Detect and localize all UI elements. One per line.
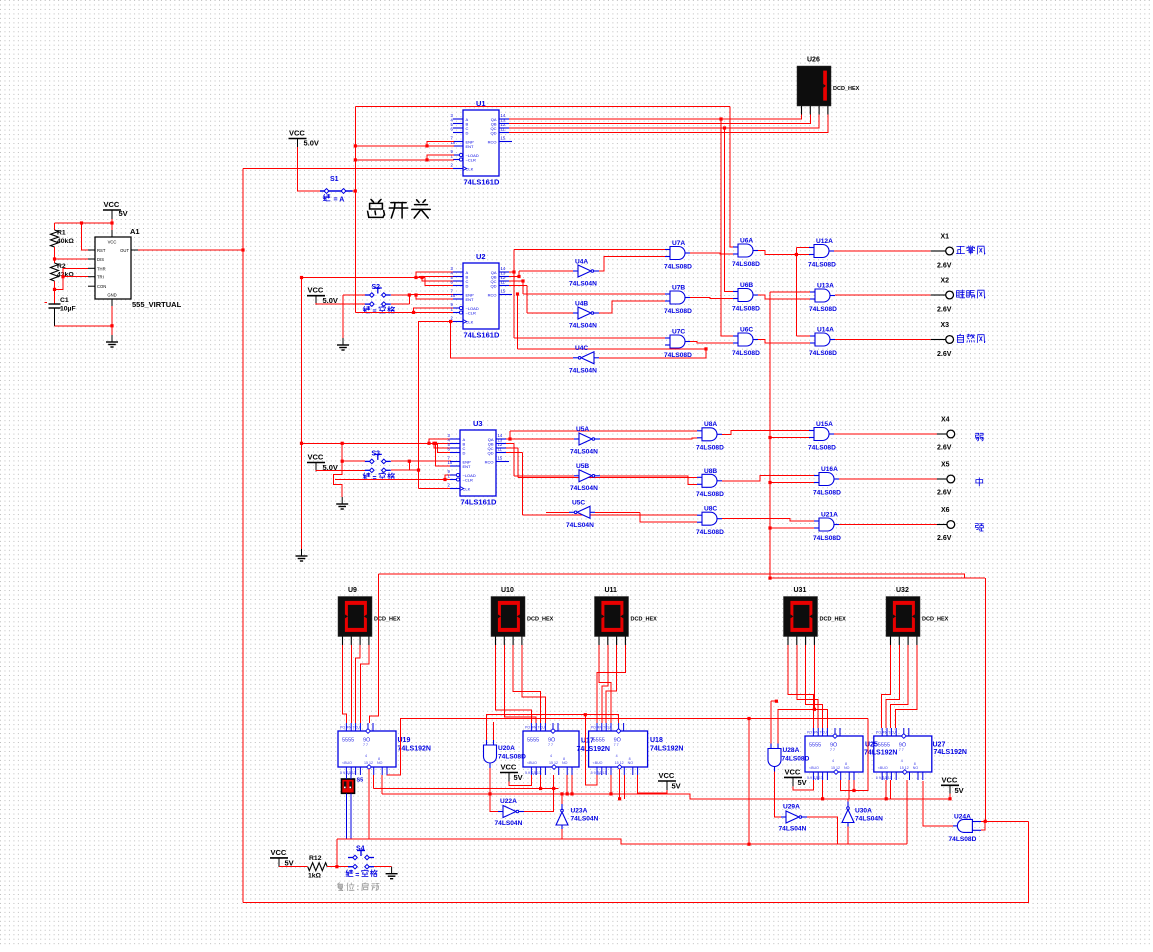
label U7A part	[664, 263, 692, 270]
junction	[408, 460, 411, 463]
junction	[53, 288, 56, 291]
junction	[110, 324, 113, 327]
wire U4A out to U7A in2	[599, 257, 665, 272]
svg-text:5V: 5V	[285, 859, 294, 868]
label X2 voltage	[937, 307, 952, 314]
svg-text:74LS192N: 74LS192N	[577, 746, 610, 753]
inverter U29A 74LS04N	[781, 811, 807, 823]
wire feedback bus lower	[770, 577, 985, 579]
svg-text:74LS04N: 74LS04N	[569, 323, 597, 330]
label U30A	[855, 808, 872, 815]
svg-text:U4B: U4B	[575, 301, 588, 308]
svg-text:NO: NO	[628, 761, 634, 765]
svg-text:RST: RST	[97, 248, 106, 253]
wire U3 QA stub	[506, 438, 510, 440]
wire R12 to S4	[327, 866, 348, 868]
junction	[412, 311, 415, 314]
svg-text:10µF: 10µF	[60, 306, 76, 313]
wire master switch vertical x=355	[354, 107, 356, 313]
svg-text:X2: X2	[941, 278, 950, 285]
wire U1 QD to U26	[509, 115, 828, 133]
svg-text:40kΩ: 40kΩ	[57, 238, 74, 245]
wire U17 pin to bus	[571, 775, 573, 794]
wire QB to U5B	[514, 475, 574, 477]
label U16A part	[813, 489, 841, 496]
junction	[53, 257, 56, 260]
svg-text:U2: U2	[476, 252, 486, 261]
wire U2 QB stub	[509, 276, 519, 278]
wire U10 pin2 to U17	[504, 645, 536, 723]
IC U3 74LS161D counter	[448, 419, 510, 507]
inverter U5A 74LS04N	[574, 433, 600, 445]
wire to C1 top	[54, 289, 56, 304]
wire R1 bottom to R2 top	[54, 247, 56, 263]
label 555_VIRTUAL	[132, 300, 182, 309]
svg-text:43kΩ: 43kΩ	[57, 272, 74, 279]
label U6B	[740, 282, 753, 289]
svg-text:U28A: U28A	[783, 747, 800, 754]
wire S1 to master net	[353, 190, 356, 192]
junction	[768, 481, 771, 484]
svg-text:5 9 ДД 13: 5 9 ДД 13	[525, 771, 541, 775]
label U13A	[817, 283, 834, 290]
svg-text:15 12: 15 12	[549, 761, 558, 765]
wire feedback vertical x=770	[769, 292, 771, 578]
svg-text:15 12: 15 12	[364, 761, 373, 765]
resistor R1	[51, 230, 59, 247]
power VCC 5.0V (S2 section)	[307, 286, 338, 305]
wire U25 pin join	[841, 780, 854, 791]
svg-text:74LS192N: 74LS192N	[864, 750, 897, 757]
label U17	[581, 738, 594, 745]
op-amp A1 555_VIRTUAL timer	[88, 230, 138, 306]
wire QC vertical	[522, 281, 524, 294]
wire U1 QB to U26	[509, 115, 810, 124]
label X6 name	[976, 524, 984, 531]
wire to U3 A	[429, 439, 451, 443]
svg-text:X1: X1	[941, 234, 950, 241]
wire VCC to U17	[509, 775, 531, 786]
power VCC 5V (U25)	[784, 767, 807, 787]
wire S2 bottom-right	[391, 303, 410, 305]
wire QD vertical	[521, 453, 523, 516]
label U15A	[816, 421, 833, 428]
label U23A	[571, 808, 588, 815]
svg-text:U11: U11	[605, 587, 618, 594]
svg-text:10: 10	[448, 460, 453, 465]
inverter U5B 74LS04N	[574, 470, 600, 482]
power VCC 5V (555 section)	[103, 200, 128, 219]
svg-text:D: D	[463, 450, 466, 455]
wire to U2 ~LOAD	[414, 308, 454, 312]
label X3 name ziranfeng	[957, 334, 985, 342]
wire to U2 ENP	[409, 294, 454, 297]
label U22A	[500, 798, 517, 805]
wire feedback to U21A in2	[770, 527, 814, 529]
wire gnd bus vertical x=301	[301, 278, 303, 550]
wire to U2 D	[425, 278, 454, 286]
wire to U3 CLK	[419, 488, 452, 490]
svg-text:NO: NO	[377, 761, 383, 765]
wire QB to U4A	[519, 270, 573, 272]
label U4A	[575, 259, 588, 266]
svg-text:15 12: 15 12	[615, 761, 624, 765]
junction	[539, 787, 542, 790]
svg-text:U15A: U15A	[816, 421, 833, 428]
label U5C	[572, 500, 585, 507]
wire to U3 ~CLR	[335, 479, 451, 481]
svg-text:74LS08D: 74LS08D	[808, 444, 836, 451]
svg-text:U19: U19	[398, 737, 411, 744]
svg-text::: :	[357, 883, 360, 892]
svg-text:ENT: ENT	[463, 464, 472, 469]
label U27	[933, 742, 946, 749]
wire to output X6	[839, 524, 937, 526]
ground (S4)	[386, 867, 398, 879]
svg-text:DCD_HEX: DCD_HEX	[820, 617, 847, 623]
switch S4 pushbutton	[348, 851, 374, 869]
AND gate U6A 74LS08D	[733, 244, 758, 257]
svg-text:U3: U3	[473, 419, 483, 428]
svg-text:2.6V: 2.6V	[937, 307, 952, 314]
wire U3 QD stub	[506, 452, 522, 454]
svg-text:2.6V: 2.6V	[937, 263, 952, 270]
svg-text:VCC: VCC	[271, 848, 287, 857]
wire U8B out to U16A in1	[722, 476, 814, 481]
junction	[508, 437, 511, 440]
junction	[488, 792, 491, 795]
wire bus to U18 bottom	[585, 715, 597, 785]
junction	[747, 717, 750, 720]
svg-text:PO ФN TCU: PO ФN TCU	[591, 726, 611, 730]
svg-text:U26: U26	[807, 57, 820, 64]
svg-text:DIS: DIS	[97, 257, 104, 262]
power VCC 5V (U27)	[941, 775, 964, 795]
wire U31 pin2 to U25	[797, 645, 818, 728]
wire feedback to U16A in2	[770, 482, 814, 484]
junction	[434, 442, 437, 445]
svg-text:74LS08D: 74LS08D	[498, 754, 526, 761]
svg-text:U25: U25	[865, 742, 878, 749]
label X5 voltage	[937, 490, 952, 497]
inverter U22A 74LS04N	[498, 806, 524, 818]
power VCC 5V (R12)	[270, 848, 294, 868]
svg-text:4: 4	[616, 754, 618, 758]
wire down to U6A input	[730, 107, 733, 248]
wire clock to U1 CLK	[243, 168, 454, 170]
switch S1	[320, 189, 353, 194]
label C1 value 10uF	[60, 306, 76, 313]
svg-text:7 7: 7 7	[899, 748, 904, 752]
label U7B part	[664, 308, 692, 315]
svg-text:ENT: ENT	[466, 144, 475, 149]
wire R1 top stub	[54, 223, 56, 230]
label U16A	[821, 466, 838, 473]
wire U17 pin to bus 3	[566, 775, 568, 794]
wire S2 to ground	[342, 295, 344, 338]
wire QA vertical	[509, 431, 511, 439]
junction	[584, 713, 587, 716]
label U21A part	[813, 535, 841, 542]
label U22A part	[495, 820, 523, 827]
label X2 name shuimianfeng	[957, 290, 986, 298]
wire U24A out to U27	[923, 781, 953, 826]
svg-text:X6: X6	[941, 507, 950, 514]
wire to U2 B	[419, 277, 454, 278]
svg-text:7 7: 7 7	[830, 748, 835, 752]
svg-text:2.6V: 2.6V	[937, 351, 952, 358]
wire to U3 B	[432, 442, 452, 444]
svg-text:74LS08D: 74LS08D	[664, 308, 692, 315]
label U8B	[704, 468, 717, 475]
wire U3 QC stub	[506, 447, 518, 449]
label U8A part	[696, 445, 724, 452]
svg-text:5 9 ДД 13: 5 9 ДД 13	[876, 776, 892, 780]
label R1	[57, 230, 66, 237]
wire U19 load to S4 bus	[368, 769, 370, 839]
label U8A	[704, 421, 717, 428]
svg-text:U1: U1	[476, 99, 486, 108]
svg-text:=: =	[355, 872, 359, 879]
AND gate U28A 74LS08D	[768, 744, 781, 772]
wire U19 to DIP 2	[350, 775, 352, 779]
wire U10 pin4 to U17	[522, 645, 546, 723]
svg-text:11: 11	[501, 126, 506, 131]
wire U4B out to U7B in2	[599, 301, 665, 313]
IC U25 74LS192N counter	[805, 728, 863, 780]
label U19	[398, 737, 411, 744]
label U6A	[740, 238, 753, 245]
svg-text:QD: QD	[491, 283, 497, 288]
svg-text:2.6V: 2.6V	[937, 535, 952, 542]
wire U6B out to U13A in2	[758, 295, 810, 299]
wire U19 to carry bus	[387, 719, 868, 776]
wire U28A out to U29A	[775, 772, 782, 818]
svg-text:4: 4	[365, 754, 367, 758]
junction	[570, 792, 573, 795]
svg-text:RCO: RCO	[485, 459, 494, 464]
wire U8C out to U21A in1	[722, 519, 814, 521]
label U20A	[498, 745, 515, 752]
power VCC 5.0V (S3 section)	[307, 453, 338, 473]
svg-text:U8C: U8C	[704, 506, 717, 513]
svg-text:S5: S5	[357, 778, 364, 784]
svg-text:U7C: U7C	[672, 329, 685, 336]
junction	[560, 792, 563, 795]
wire VCC to S2 bottom row	[316, 303, 365, 304]
AND gate U6B 74LS08D	[733, 289, 758, 302]
wire QA to U5A	[510, 438, 574, 440]
junction	[852, 789, 855, 792]
label S3 key = space	[363, 473, 370, 480]
label X1	[941, 234, 950, 241]
wire QA to U7C in1	[514, 337, 665, 339]
wire S3 top-left	[342, 460, 365, 462]
wire QA to U7A in1	[514, 249, 665, 251]
IC U17 74LS192N counter	[523, 723, 579, 775]
wire bus down to U19 pin	[370, 574, 379, 723]
svg-text:74LS04N: 74LS04N	[495, 820, 523, 827]
wire U18 pin to bus 2	[610, 775, 612, 794]
wire U22A out to U17 pin	[524, 775, 554, 812]
wire S3 rows join	[408, 461, 410, 470]
svg-text:74LS08D: 74LS08D	[809, 350, 837, 357]
svg-text:74LS192N: 74LS192N	[650, 746, 683, 753]
svg-text:VCC: VCC	[785, 767, 801, 776]
svg-text:7 7: 7 7	[548, 743, 553, 747]
wire U3 QB stub	[506, 443, 514, 445]
label U8C part	[696, 529, 724, 536]
AND gate U15A 74LS08D	[809, 428, 834, 441]
AND gate U8C 74LS08D	[697, 512, 722, 525]
label U7C	[672, 329, 685, 336]
wire to U3 C	[434, 443, 451, 448]
label X3	[941, 322, 950, 329]
wire to U1 ENP	[427, 142, 454, 146]
junction	[948, 797, 951, 800]
svg-text:5555: 5555	[809, 743, 821, 749]
AND gate U14A 74LS08D	[810, 333, 835, 346]
svg-text:RCO: RCO	[488, 139, 497, 144]
wire U2 QD stub	[509, 285, 527, 287]
svg-text:<BUO: <BUO	[527, 761, 537, 765]
wire U25 pin to bus	[822, 780, 824, 799]
label C1	[60, 297, 69, 304]
label U13A part	[809, 306, 837, 313]
wire U28A in2 tap	[778, 709, 814, 743]
svg-text:U22A: U22A	[500, 798, 517, 805]
wire U9 pin4 to U19	[360, 645, 369, 723]
label U6C part	[732, 350, 760, 357]
svg-text:A1: A1	[130, 227, 140, 236]
svg-text:15: 15	[501, 288, 506, 293]
AND gate U21A 74LS08D	[814, 518, 839, 531]
svg-text:7 7: 7 7	[363, 743, 368, 747]
junction	[552, 787, 555, 790]
wire A1 GND pin down	[111, 306, 113, 335]
label X4 voltage	[937, 445, 952, 452]
label U30A part	[855, 816, 883, 823]
wire DIP down	[345, 793, 347, 839]
wire U24A in1 to loop	[981, 820, 1029, 822]
wire U12A-U14A vertical	[795, 248, 797, 337]
node X5 output terminal	[937, 475, 955, 483]
wire data bus to U2 inputs	[302, 277, 426, 279]
svg-text:74LS08D: 74LS08D	[732, 350, 760, 357]
svg-text:74LS08D: 74LS08D	[813, 535, 841, 542]
svg-text:74LS08D: 74LS08D	[696, 445, 724, 452]
svg-text:74LS08D: 74LS08D	[809, 306, 837, 313]
svg-text:S3: S3	[372, 451, 381, 458]
svg-text:74LS08D: 74LS08D	[808, 261, 836, 268]
svg-text:PO ФN TCU: PO ФN TCU	[340, 726, 360, 730]
wire U32 pin3 to U27	[891, 645, 909, 728]
wire S2 rows join	[408, 295, 410, 304]
wire U10 pin1 to U17	[496, 645, 532, 723]
AND gate U8B 74LS08D	[697, 474, 722, 487]
svg-text:4: 4	[832, 759, 834, 763]
junction	[449, 320, 452, 323]
node X2 output terminal	[931, 291, 954, 299]
svg-text:74LS04N: 74LS04N	[570, 448, 598, 455]
label U5A	[576, 426, 589, 433]
wire U19 pin down 2	[381, 775, 383, 794]
wire U31 pin3 to U25	[806, 645, 823, 728]
svg-text:C1: C1	[60, 297, 69, 304]
junction	[425, 158, 428, 161]
wire to U3 ENP	[409, 460, 451, 462]
svg-text:5V: 5V	[514, 773, 523, 782]
label S1	[330, 176, 339, 183]
junction	[417, 469, 420, 472]
svg-text:U5B: U5B	[576, 463, 589, 470]
svg-text:74LS192N: 74LS192N	[934, 749, 967, 756]
label U29A	[783, 804, 800, 811]
svg-text:5V: 5V	[672, 782, 681, 791]
wire QD vertical	[526, 286, 528, 314]
wire U5A out to U8A in2	[600, 438, 697, 439]
svg-text:5V: 5V	[119, 209, 128, 218]
svg-text:VCC: VCC	[942, 775, 958, 784]
label U18 part	[650, 746, 683, 753]
wire U30A in from S4 bus	[847, 827, 849, 845]
label X1 voltage	[937, 263, 952, 270]
svg-text:U30A: U30A	[855, 808, 872, 815]
wire U7B out to U6B in2	[690, 298, 733, 299]
wire U23A in from S4 bus	[561, 829, 563, 839]
wire U32 pin2 to U27	[886, 645, 899, 728]
wire S4 node up	[336, 839, 338, 867]
svg-text:ENT: ENT	[466, 297, 475, 302]
label S3	[372, 451, 381, 458]
wire to A1 RST pin	[82, 223, 89, 250]
wire to U1 ENT	[355, 145, 454, 147]
svg-text:5.0V: 5.0V	[304, 139, 319, 148]
label U8C	[704, 506, 717, 513]
wire to output X1	[834, 250, 931, 252]
wire U27 pin to S4 bus	[906, 780, 908, 844]
junction	[354, 158, 357, 161]
svg-text:U16A: U16A	[821, 466, 838, 473]
wire QA vertical	[513, 250, 515, 339]
wire clock bus vertical x=243	[242, 169, 244, 903]
wire to U23A out	[561, 794, 563, 804]
ground (S2)	[337, 338, 349, 350]
wire C1 to GND net	[55, 325, 113, 327]
label S2 key = space	[363, 306, 370, 313]
label U14A	[817, 327, 834, 334]
wire to U3 D	[438, 443, 452, 452]
IC U19 74LS192N counter	[338, 723, 396, 775]
svg-text:74LS04N: 74LS04N	[855, 816, 883, 823]
svg-text:74LS04N: 74LS04N	[779, 825, 807, 832]
wire U20A out to U22A	[490, 768, 498, 812]
svg-text:U13A: U13A	[817, 283, 834, 290]
svg-text:=: =	[373, 475, 377, 482]
resistor R12	[308, 863, 328, 871]
label R12 value 1k	[308, 873, 322, 880]
svg-text:74LS161D: 74LS161D	[461, 498, 497, 507]
svg-text:U21A: U21A	[821, 512, 838, 519]
svg-text:74LS161D: 74LS161D	[464, 331, 500, 340]
svg-text:<BUO: <BUO	[878, 766, 888, 770]
AND gate U20A 74LS08D	[484, 740, 497, 768]
svg-text:R1: R1	[57, 230, 66, 237]
wire to U4C input	[518, 349, 707, 358]
node X1 output terminal	[931, 247, 954, 255]
junction	[521, 279, 524, 282]
svg-text:DCD_HEX: DCD_HEX	[833, 86, 860, 92]
